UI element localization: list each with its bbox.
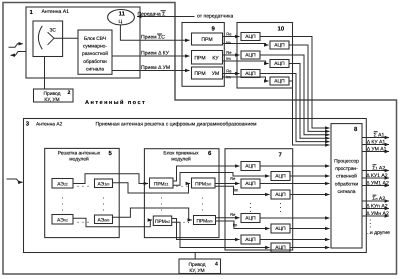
dots block6 column2 — [202, 197, 203, 198]
dots block7 column2 — [280, 203, 281, 204]
wire АЦП 7.5 to processor — [260, 217, 330, 219]
АЦП box 10.5 (Re ПРМ УМ) — [241, 70, 260, 78]
block 6 Блок приемных модулей — [144, 149, 219, 238]
output Σn А2 — [362, 200, 389, 202]
wire ПРМnm Re to АЦП — [216, 217, 240, 219]
output Δ КУ1 А2 — [362, 177, 389, 179]
wire ПРМ УМ Im to АЦП — [223, 77, 269, 81]
dots between ПРМ11 ПРМ1m — [176, 186, 177, 187]
svg-text:Передача Σ: Передача Σ — [138, 11, 166, 17]
output Δ КУn А2 — [362, 208, 389, 210]
svg-text:Σ1 А2: Σ1 А2 — [372, 165, 385, 171]
svg-text:АЦП: АЦП — [245, 53, 256, 59]
svg-text:АЦП: АЦП — [275, 192, 286, 198]
bus wire АЦП1 to processor — [260, 37, 330, 129]
svg-text:Δ УМ А1: Δ УМ А1 — [367, 146, 387, 152]
АЭ nm box — [95, 215, 113, 224]
svg-text:Re: Re — [230, 212, 236, 217]
outgoing wave arrow (top left, transmit) — [11, 52, 26, 56]
ПРМ 11 box — [150, 178, 174, 188]
svg-text:ЗС: ЗС — [50, 28, 57, 34]
svg-text:Δ УМ1 А2: Δ УМ1 А2 — [366, 180, 389, 186]
svg-text:Блок приемных: Блок приемных — [163, 151, 199, 157]
svg-text:АЦП: АЦП — [274, 61, 285, 67]
wire Прием Δ КУ — [112, 55, 190, 57]
block 2 Привод КУ УМ — [34, 89, 74, 102]
svg-text:УМ: УМ — [212, 71, 219, 77]
bus wire АЦП4 to processor — [289, 64, 330, 139]
bus wire АЦП6 to processor — [289, 81, 330, 145]
svg-text:Прием Δ УМ: Прием Δ УМ — [141, 65, 170, 71]
wire Прием Δ УМ — [112, 70, 190, 72]
svg-text:..и другие: ..и другие — [367, 230, 390, 236]
svg-text:АЦП: АЦП — [245, 216, 256, 222]
svg-text:Σ А1: Σ А1 — [374, 132, 385, 138]
ПРМ nm box — [194, 216, 216, 225]
svg-text:Прием Δ КУ: Прием Δ КУ — [141, 50, 170, 56]
svg-text:Re: Re — [230, 176, 236, 181]
svg-text:АЦП: АЦП — [245, 34, 256, 40]
svg-text:Антенный пост: Антенный пост — [85, 99, 146, 106]
block 10 ADCs — [237, 23, 293, 89]
wire Передача from transmitter into circulator — [137, 16, 195, 18]
dots between АЭ11 АЭ1m — [77, 186, 78, 187]
АЭ 1m box — [95, 179, 113, 188]
svg-text:Im: Im — [226, 75, 231, 80]
wire АЭn1 to ПРМn1 (passes under АЭnm) — [73, 218, 152, 227]
АЭ 11 box — [52, 179, 73, 189]
svg-text:ПРМ: ПРМ — [194, 71, 205, 77]
dots block5 column1 — [62, 186, 281, 223]
output Δ УМn А2 — [362, 215, 389, 217]
svg-text:простран-: простран- — [335, 167, 358, 172]
svg-text:Im: Im — [226, 40, 231, 45]
wire ПРМnm Im to АЦП — [216, 221, 270, 229]
wire ПРМ КУ Im to АЦП — [223, 61, 269, 64]
svg-text:Привод: Привод — [189, 262, 206, 268]
dots below outputs — [370, 219, 371, 220]
АЦП box 10.6 (Im ПРМ УМ) — [270, 77, 289, 85]
svg-text:суммарно-: суммарно- — [83, 45, 107, 50]
block 9 receivers — [182, 23, 224, 87]
svg-text:ПРМ: ПРМ — [201, 37, 212, 43]
wire АЦП 7.7 to processor — [260, 239, 330, 241]
dots block6 column1 — [161, 197, 162, 198]
svg-text:Антенна А2: Антенна А2 — [36, 121, 63, 127]
svg-text:11: 11 — [119, 11, 126, 18]
wire ПРМn1 Re to АЦП (drops to lower pair) — [172, 219, 240, 240]
mirror antenna ЗС box — [33, 21, 63, 57]
output Σ А1 — [362, 137, 389, 139]
incoming wave arrow (bottom left) — [7, 179, 23, 182]
АЦП box 7.4 (Im ПРМ1m) — [271, 190, 290, 199]
svg-text:Re: Re — [226, 68, 232, 73]
bus wire АЦП5 to processor — [260, 74, 330, 142]
АЦП box 10.1 (Re ПРМ) — [241, 33, 260, 41]
feed symbol — [48, 32, 54, 45]
svg-text:КУ, УМ: КУ, УМ — [189, 268, 204, 274]
svg-text:сигнала: сигнала — [338, 190, 356, 195]
wire АЦП 7.1 to processor — [260, 165, 330, 167]
svg-text:Im: Im — [226, 56, 231, 61]
svg-text:АЦП: АЦП — [274, 43, 285, 49]
АЦП box 7.6 (Im ПРМnm) — [271, 224, 290, 233]
block 8 processor — [331, 124, 362, 248]
svg-text:Блок СВЧ: Блок СВЧ — [84, 36, 106, 42]
svg-text:Антенна А1: Антенна А1 — [42, 9, 70, 15]
wire ПРМ Im to АЦП — [223, 44, 269, 46]
ПРМ box — [192, 33, 223, 45]
wire ПРМn1 Im to АЦП (drops to lower pair) — [172, 222, 270, 247]
svg-text:АЦП: АЦП — [245, 71, 256, 77]
АЦП box 7.1 (Re ПРМ11) — [241, 162, 260, 171]
block 7 ADCs — [225, 149, 293, 250]
svg-text:ПРМ: ПРМ — [194, 56, 205, 62]
АЦП box 10.2 (Im ПРМ) — [270, 41, 289, 49]
АЦП box 7.5 (Re ПРМnm) — [241, 214, 260, 223]
svg-text:Прием ΣС: Прием ΣС — [141, 35, 165, 41]
svg-text:разностной: разностной — [82, 51, 108, 57]
svg-text:АЦП: АЦП — [274, 79, 285, 85]
svg-text:ственной: ственной — [336, 174, 357, 180]
ПРМ 1m box — [192, 178, 216, 188]
block 1 Антенна А1 — [26, 7, 140, 78]
bus wire АЦП3 to processor — [260, 55, 330, 135]
wire ЗС to Привод — [44, 57, 46, 90]
wire АЦП 7.6 to processor — [290, 228, 330, 230]
wire АЦП 7.3 to processor — [260, 183, 330, 185]
svg-text:Σn А2: Σn А2 — [372, 196, 385, 202]
wire feed to СВЧ block — [54, 37, 78, 39]
АЦП box 10.4 (Im ПРМ КУ) — [270, 60, 289, 68]
wire АЭnm to ПРМnm (passes over ПРМn1) — [113, 208, 192, 220]
svg-text:Решетка антенных: Решетка антенных — [58, 151, 101, 157]
svg-text:Процессор: Процессор — [334, 159, 359, 165]
svg-text:АЦП: АЦП — [245, 237, 256, 243]
svg-text:модулей: модулей — [69, 156, 89, 162]
wire ПРМ Re to АЦП — [223, 36, 240, 38]
output Δ КУ А1 — [362, 144, 389, 146]
svg-text:Привод: Привод — [44, 91, 61, 97]
overline on Σ — [161, 10, 166, 12]
block 5 Решетка антенных модулей — [45, 148, 120, 237]
wire ПРМ КУ Re to АЦП — [223, 54, 240, 56]
svg-text:Re: Re — [226, 31, 232, 36]
reflector arc — [38, 26, 42, 50]
ПРМ n1 box — [153, 216, 171, 226]
output Σ1 А2 — [362, 170, 389, 172]
bus wire АЦП2 to processor — [289, 45, 330, 131]
svg-text:10: 10 — [278, 25, 285, 32]
svg-text:4: 4 — [215, 262, 218, 268]
АЦП box 7.3 (Re ПРМ1m) — [241, 179, 260, 188]
dots between ПРМn1 ПРМnm — [183, 222, 184, 223]
wire АЦП 7.8 to processor — [290, 247, 330, 249]
АЦП box 10.3 (Re ПРМ КУ) — [241, 51, 260, 59]
svg-text:Δ КУn А2: Δ КУn А2 — [366, 203, 387, 209]
wire ПРМ11 Im to АЦП — [173, 173, 270, 186]
АЦП box 7.2 (Im ПРМ11) — [271, 172, 290, 181]
svg-text:АЦП: АЦП — [275, 174, 286, 180]
incoming wave arrow (top left, receive) — [9, 44, 23, 48]
svg-text:Δ КУ А1: Δ КУ А1 — [367, 139, 386, 145]
svg-text:обработки: обработки — [83, 59, 107, 65]
block СВЧ summarno-raznostnoy obrabotki — [78, 30, 112, 74]
wire АЦП 7.2 to processor — [290, 175, 330, 177]
wire ПРМ1m Re to АЦП — [215, 183, 240, 185]
svg-text:от передатчика: от передатчика — [197, 14, 233, 20]
svg-text:Δ КУ1 А2: Δ КУ1 А2 — [366, 173, 387, 179]
svg-text:2: 2 — [68, 90, 71, 96]
svg-text:АЦП: АЦП — [275, 226, 286, 232]
svg-text:АЦП: АЦП — [275, 245, 286, 251]
wire Прием ΣС from circulator to ПРМ — [120, 25, 189, 40]
svg-text:Ц: Ц — [118, 19, 122, 25]
dots between АЭn1 АЭnm — [77, 222, 78, 223]
wire block3 to Привод — [194, 253, 196, 260]
wire ПРМ УМ Re to АЦП — [223, 73, 240, 75]
block 3 Антенна А2 — [24, 119, 367, 253]
svg-text:АЦП: АЦП — [245, 164, 256, 170]
АЭ n1 box — [52, 215, 73, 225]
svg-text:сигнала: сигнала — [86, 67, 104, 72]
svg-text:Приемная антенная решетка с ци: Приемная антенная решетка с цифровым диа… — [96, 122, 258, 128]
ПРМ УМ box — [192, 67, 223, 79]
АЦП box 7.8 (Im ПРМn1) — [271, 243, 290, 252]
circulator ellipse 11 Ц — [108, 10, 135, 25]
ПРМ КУ box — [192, 51, 223, 65]
svg-text:Im: Im — [234, 188, 239, 193]
block 4 Привод КУ УМ — [179, 259, 221, 274]
svg-text:Δ УМн А2: Δ УМн А2 — [366, 211, 389, 217]
output Δ УМ1 А2 — [362, 185, 389, 187]
dots block7 column1 — [250, 203, 251, 204]
wire АЭ11 to ПРМ11 — [73, 174, 148, 184]
svg-text:модулей: модулей — [171, 156, 191, 162]
svg-text:Re: Re — [226, 50, 232, 55]
АЦП box 7.7 (Re ПРМn1) — [241, 235, 260, 244]
svg-text:КУ: КУ — [212, 56, 219, 62]
svg-text:АЦП: АЦП — [245, 181, 256, 187]
wire ПРМ11 Re to АЦП — [173, 166, 240, 181]
wire АЦП 7.4 to processor — [290, 194, 330, 196]
wire АЭ1m to ПРМ1m — [113, 183, 191, 193]
svg-text:обработки: обработки — [335, 181, 359, 187]
svg-text:КУ, УМ: КУ, УМ — [44, 97, 59, 103]
svg-text:Im: Im — [233, 222, 238, 227]
wire ПРМ1m Im to АЦП — [215, 186, 270, 194]
output Δ УМ А1 — [362, 151, 389, 153]
dots block5 column2 — [103, 197, 104, 198]
